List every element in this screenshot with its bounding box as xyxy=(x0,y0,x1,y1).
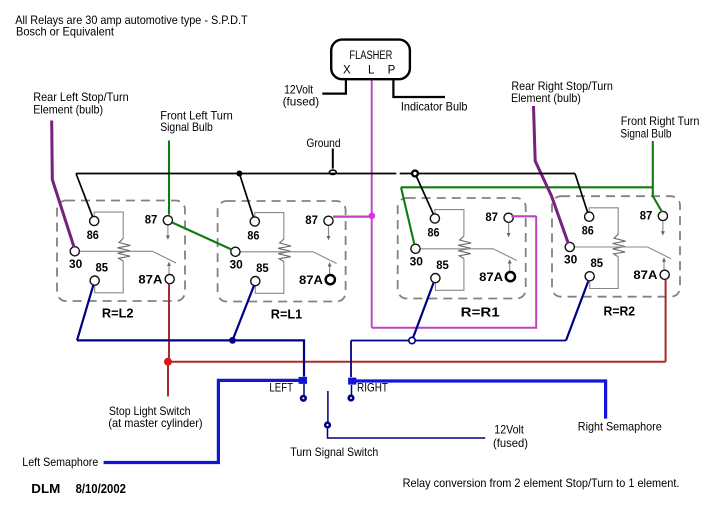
svg-text:LEFT: LEFT xyxy=(269,380,293,394)
svg-text:(at master cylinder): (at master cylinder) xyxy=(108,416,202,430)
svg-text:DLM: DLM xyxy=(31,482,60,496)
svg-text:FLASHER: FLASHER xyxy=(349,50,392,62)
svg-text:L: L xyxy=(368,65,375,77)
svg-text:RIGHT: RIGHT xyxy=(357,381,389,395)
svg-text:12Volt: 12Volt xyxy=(494,423,524,437)
svg-text:R=R2: R=R2 xyxy=(604,304,636,319)
svg-text:Ground: Ground xyxy=(306,136,340,150)
svg-text:Bosch or Equivalent: Bosch or Equivalent xyxy=(16,25,115,39)
svg-text:Signal Bulb: Signal Bulb xyxy=(620,126,671,140)
svg-text:P: P xyxy=(388,65,396,77)
svg-text:8/10/2002: 8/10/2002 xyxy=(76,482,126,496)
svg-text:Indicator Bulb: Indicator Bulb xyxy=(401,99,468,113)
svg-text:Left Semaphore: Left Semaphore xyxy=(22,455,98,469)
svg-text:(fused): (fused) xyxy=(283,94,320,108)
svg-text:R=L2: R=L2 xyxy=(102,306,134,321)
svg-text:R=L1: R=L1 xyxy=(271,307,302,322)
svg-text:Signal Bulb: Signal Bulb xyxy=(160,120,213,134)
svg-text:X: X xyxy=(343,65,351,77)
svg-text:Relay conversion from 2 elemen: Relay conversion from 2 element Stop/Tur… xyxy=(403,476,680,490)
svg-text:R=R1: R=R1 xyxy=(461,305,500,320)
svg-text:(fused): (fused) xyxy=(493,436,528,450)
svg-text:Turn Signal Switch: Turn Signal Switch xyxy=(290,445,378,459)
svg-text:Right Semaphore: Right Semaphore xyxy=(578,420,662,434)
svg-text:Element (bulb): Element (bulb) xyxy=(511,91,581,105)
svg-text:Element (bulb): Element (bulb) xyxy=(33,103,103,117)
